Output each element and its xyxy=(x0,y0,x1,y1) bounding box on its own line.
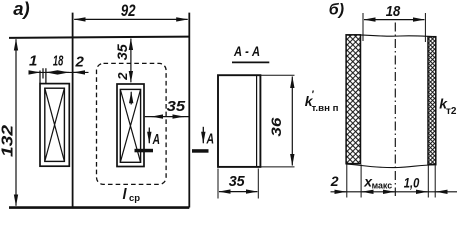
section cut bar right xyxy=(192,149,209,153)
section bottom ext right xyxy=(257,169,259,199)
svg-text:А - А: А - А xyxy=(233,43,260,59)
core bottom edge xyxy=(9,206,189,209)
arrow xmax right xyxy=(385,191,395,193)
svg-text:1,0: 1,0 xyxy=(404,175,420,191)
left winding outer xyxy=(40,84,69,167)
right winding outer xyxy=(117,84,144,167)
dim 1-18-2 line xyxy=(30,71,89,73)
bottom ext 346.8 xyxy=(346,165,348,198)
svg-text:′: ′ xyxy=(312,90,315,101)
bottom ext 361.1 xyxy=(360,165,362,198)
bottom dim line xyxy=(331,191,457,193)
section cut arrow A right xyxy=(202,127,204,143)
svg-text:б): б) xyxy=(329,1,344,18)
section ext bottom xyxy=(261,166,295,168)
section ext top xyxy=(261,74,295,76)
left winding cross xyxy=(45,88,65,161)
section cut bar left xyxy=(135,149,154,153)
arrow to 428 xyxy=(418,191,428,193)
svg-text:а): а) xyxy=(13,0,29,19)
dim 35 vertical line xyxy=(130,39,132,83)
dim arrow to 40 xyxy=(31,71,40,73)
tube bottom edge xyxy=(346,164,437,168)
dashed mean path l_ср xyxy=(97,63,167,184)
right wall hatched xyxy=(428,37,436,165)
svg-text:92: 92 xyxy=(121,1,136,20)
svg-text:35: 35 xyxy=(229,173,246,190)
right winding inner xyxy=(120,89,140,162)
svg-text:2: 2 xyxy=(75,54,85,71)
svg-text:A: A xyxy=(206,131,214,147)
dim 36 line xyxy=(291,77,293,166)
svg-text:36: 36 xyxy=(269,117,284,137)
dim arrow 2 left xyxy=(74,71,83,73)
right winding cross xyxy=(120,89,140,162)
dim 35 horizontal line xyxy=(145,116,189,118)
svg-text:A: A xyxy=(152,132,160,148)
svg-text:т.вн п: т.вн п xyxy=(312,103,339,113)
svg-text:l: l xyxy=(123,187,128,203)
svg-text:2: 2 xyxy=(330,173,339,189)
svg-text:132: 132 xyxy=(0,125,16,157)
svg-text:т2: т2 xyxy=(446,106,457,117)
svg-text:18: 18 xyxy=(386,3,401,20)
dim 2 vertical arrow xyxy=(130,92,132,105)
arrow from 435.7 xyxy=(436,191,446,193)
left winding inner xyxy=(45,88,65,161)
bottom ext 435.2 xyxy=(434,166,436,198)
tube top edge xyxy=(346,35,436,37)
bottom ext 428.3 xyxy=(427,166,429,198)
section label underline xyxy=(232,61,269,63)
dim 18 ext left xyxy=(362,13,364,41)
section cut arrow A left xyxy=(148,128,150,144)
dim 92 line xyxy=(74,18,188,20)
dim 18 ext right xyxy=(424,13,426,42)
dim 35 section line xyxy=(219,191,257,193)
section rect xyxy=(218,75,260,167)
svg-text:35: 35 xyxy=(167,98,186,115)
centerline xyxy=(394,23,396,197)
svg-text:макс: макс xyxy=(372,181,393,191)
arrow xmax left xyxy=(362,191,372,193)
dim arrow 18 left xyxy=(46,71,55,73)
dim 132 line xyxy=(15,39,17,206)
core top edge xyxy=(9,37,189,38)
svg-text:35: 35 xyxy=(115,44,130,61)
dim 18 line xyxy=(364,19,424,21)
section inner edge xyxy=(256,75,258,167)
section bottom ext left xyxy=(217,169,219,199)
svg-text:1: 1 xyxy=(29,53,37,70)
svg-text:2: 2 xyxy=(115,72,130,81)
core left limb edge xyxy=(72,13,74,208)
dim arrow 18 right xyxy=(60,71,69,73)
svg-text:18: 18 xyxy=(53,53,64,70)
dim 1-18-2 extension ticks xyxy=(40,68,46,84)
left wall hatched xyxy=(346,35,360,164)
arrow to 346.8 xyxy=(336,191,346,193)
core right edge xyxy=(188,13,190,208)
svg-text:ср: ср xyxy=(129,193,140,204)
